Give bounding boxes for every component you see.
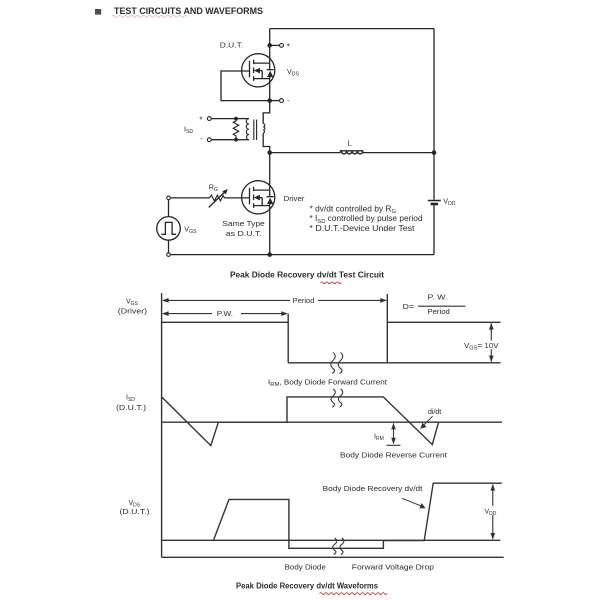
wire left rail from top to VDS+ node	[269, 29, 271, 64]
inductor L	[341, 151, 363, 154]
wire resistor to primary top	[236, 118, 249, 120]
resistor damping (vertical zigzag)	[233, 119, 238, 140]
IRM measurement arrow	[387, 423, 401, 445]
wire VGS top	[168, 200, 170, 217]
wire driver source to bottom rail	[269, 206, 271, 255]
svg-text:* D.U.T.-Device Under Test: * D.U.T.-Device Under Test	[310, 224, 416, 233]
source VGS pulse generator	[157, 217, 181, 241]
terminal VGS top (open circle)	[167, 196, 171, 200]
wire VDS+ stub	[270, 44, 280, 46]
annotation P.W. arrow	[162, 311, 288, 316]
node VDS+ junction	[267, 43, 272, 48]
wire ISD-	[211, 139, 236, 141]
svg-text:(D.U.T.): (D.U.T.)	[116, 405, 146, 412]
terminal ISD- (open circle)	[207, 138, 211, 142]
svg-text:Body Diode Recovery dv/dt: Body Diode Recovery dv/dt	[323, 484, 423, 493]
node inductor junction right	[432, 150, 437, 155]
wire right rail upper	[433, 29, 435, 200]
svg-text:as D.U.T.: as D.U.T.	[226, 229, 262, 238]
waveform axis vertical	[161, 293, 163, 557]
svg-text:Driver: Driver	[284, 194, 305, 203]
waveform VGS pulse 2 top	[387, 321, 500, 323]
wire RG to driver gate	[225, 197, 250, 199]
node inductor junction left	[267, 150, 272, 155]
transistor Q1 D.U.T. MOSFET	[242, 54, 275, 87]
wire inductor right	[363, 152, 435, 154]
svg-text:Same Type: Same Type	[222, 219, 265, 228]
di/dt pointer arrow	[420, 416, 432, 429]
svg-text:(D.U.T.): (D.U.T.)	[120, 509, 150, 516]
wire top rail	[270, 28, 434, 30]
waveform VGS falling edge	[287, 314, 289, 363]
annotation Period arrow	[162, 298, 387, 303]
svg-text:(Driver): (Driver)	[118, 309, 147, 316]
wire bottom rail	[170, 254, 434, 256]
svg-text:IRM, Body Diode Forward Curren: IRM, Body Diode Forward Current	[268, 377, 387, 388]
wire D.U.T. gate loop	[221, 71, 268, 101]
terminal VDS+ (open circle)	[280, 44, 284, 48]
spellcheck squiggle under dv/dt Waveforms	[320, 593, 388, 595]
wire resistor to primary bottom	[236, 139, 249, 141]
svg-text:di/dt: di/dt	[428, 409, 441, 416]
waveform VGS low level line	[288, 362, 500, 364]
transformer T1 secondary winding	[263, 124, 265, 134]
svg-text:Body Diode Reverse Current: Body Diode Reverse Current	[340, 451, 447, 460]
node VDS- junction	[267, 98, 272, 103]
transistor Q2 driver MOSFET	[242, 181, 275, 214]
svg-text:D.U.T.: D.U.T.	[220, 41, 243, 50]
variable resistor arrow	[209, 189, 228, 207]
battery VDD negative plate	[431, 203, 438, 206]
wire D.U.T. source to secondary jog	[263, 79, 270, 124]
waveform VGS pulse 1 top	[162, 321, 289, 323]
label VDD on waveform	[484, 506, 501, 517]
break marks on VGS low line	[331, 353, 343, 374]
VGS 10V measurement arrow	[489, 323, 494, 363]
wire rail to driver drain	[269, 153, 271, 191]
node resistor bottom junction	[234, 138, 238, 142]
wire right rail lower	[433, 205, 435, 254]
node resistor top junction	[234, 117, 238, 121]
svg-text:Peak Diode Recovery dv/dt Wave: Peak Diode Recovery dv/dt Waveforms	[236, 582, 379, 591]
svg-text:TEST CIRCUITS AND WAVEFORMS: TEST CIRCUITS AND WAVEFORMS	[114, 6, 263, 16]
svg-text:P. W.: P. W.	[428, 293, 448, 302]
svg-text:Period: Period	[293, 296, 315, 305]
terminal VGS bottom (open circle)	[167, 253, 171, 257]
terminal VDS- (open circle)	[280, 99, 284, 103]
svg-text:Body Diode: Body Diode	[285, 563, 326, 572]
node bottom rail junction	[267, 252, 272, 257]
VDS bottom frame line	[162, 556, 504, 558]
waveform VGS period boundary / rising edge	[386, 294, 388, 363]
label VGS = 10V	[464, 341, 500, 352]
waveform VDS trace	[214, 483, 502, 548]
transformer T1 core	[254, 120, 257, 141]
wire VGS to RG	[170, 197, 209, 199]
wire VDS- stub	[270, 100, 280, 102]
waveform ISD trace	[162, 397, 439, 446]
svg-text:D=: D=	[403, 302, 414, 311]
svg-text:Forward Voltage Drop: Forward Voltage Drop	[352, 563, 434, 572]
VDD measurement arrow	[491, 484, 496, 540]
terminal ISD+ (open circle)	[207, 117, 211, 121]
svg-text:P.W.: P.W.	[217, 309, 233, 318]
break marks on VDS low line	[333, 538, 344, 555]
svg-text:L: L	[348, 139, 352, 148]
spellcheck squiggle under dv/dt	[321, 282, 342, 284]
fraction bar	[418, 305, 466, 307]
VDS zero axis line	[162, 539, 501, 541]
Body Diode Recovery pointer arrow	[402, 498, 426, 508]
break marks on ISD high line	[331, 389, 343, 407]
wire ISD+	[211, 118, 236, 120]
battery VDD positive plate	[428, 200, 441, 202]
ISD zero axis line	[162, 421, 502, 423]
svg-text:Period: Period	[428, 307, 450, 316]
section bullet	[95, 9, 101, 15]
resistor RG (zigzag)	[210, 195, 225, 201]
wire inductor left	[270, 152, 341, 154]
wire secondary bottom jog	[263, 133, 270, 152]
transformer T1 primary winding	[246, 119, 249, 140]
svg-text:Peak Diode Recovery dv/dt Test: Peak Diode Recovery dv/dt Test Circuit	[230, 271, 384, 280]
spellcheck underline (red squiggle)	[112, 15, 187, 17]
wire VGS bottom	[168, 240, 170, 253]
